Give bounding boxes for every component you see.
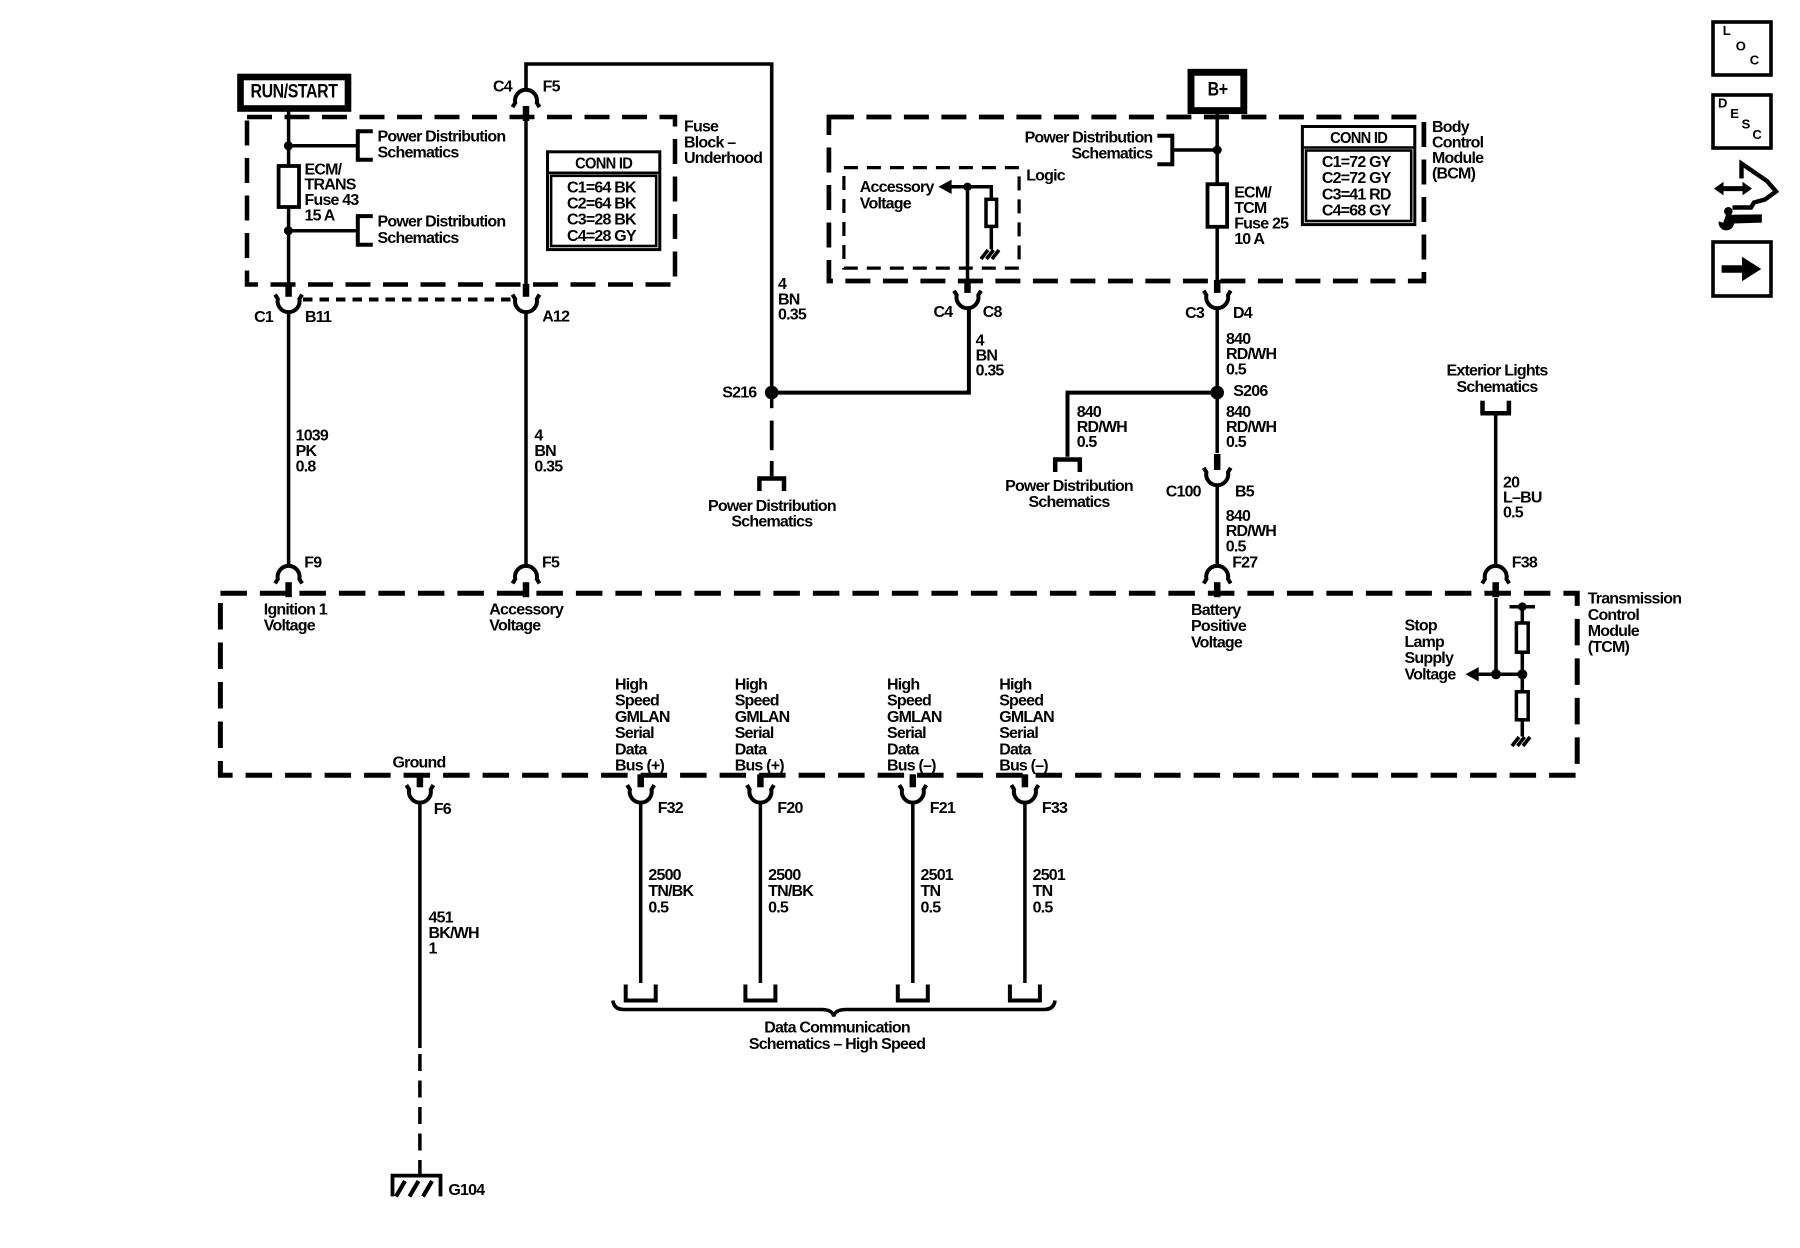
arrow stop lamp supply — [1466, 667, 1479, 681]
svg-text:TN: TN — [921, 883, 941, 900]
svg-text:Block –: Block – — [684, 134, 736, 151]
svg-text:C2=64 BK: C2=64 BK — [567, 196, 637, 213]
connector F5 TCM top — [513, 566, 540, 583]
svg-text:GMLAN: GMLAN — [887, 709, 942, 726]
connector F6 TCM bottom — [406, 785, 433, 802]
svg-text:GMLAN: GMLAN — [615, 709, 670, 726]
connector A12 fuse block bottom — [513, 295, 540, 312]
svg-text:0.35: 0.35 — [976, 362, 1005, 379]
svg-text:Voltage: Voltage — [860, 195, 912, 212]
svg-text:0.5: 0.5 — [1077, 434, 1098, 451]
svg-text:S206: S206 — [1233, 383, 1268, 400]
connector F20 TCM bottom — [747, 785, 774, 802]
wire S216 stub down — [770, 393, 774, 409]
svg-text:Underhood: Underhood — [684, 150, 762, 167]
svg-text:Body: Body — [1432, 119, 1470, 136]
svg-text:Serial: Serial — [887, 725, 926, 742]
svg-text:Stop: Stop — [1405, 618, 1438, 635]
svg-text:0.35: 0.35 — [534, 459, 563, 476]
icon outline arrow — [1733, 164, 1777, 208]
svg-text:F21: F21 — [930, 800, 956, 817]
connector C3/D4 BCM bottom — [1204, 291, 1231, 308]
svg-text:TN: TN — [1033, 883, 1053, 900]
internal T-bar terminal — [1510, 605, 1536, 609]
connector C1/B11 fuse block bottom — [275, 295, 302, 312]
connector F27 TCM top — [1204, 566, 1231, 583]
wire F33 to data bus — [1023, 802, 1027, 984]
svg-text:Data: Data — [999, 741, 1031, 758]
svg-text:B+: B+ — [1208, 79, 1228, 100]
svg-text:F38: F38 — [1512, 555, 1538, 572]
svg-text:C8: C8 — [983, 304, 1003, 321]
CONN ID table fuse block — [548, 152, 660, 250]
svg-text:Speed: Speed — [735, 693, 779, 710]
svg-text:F27: F27 — [1232, 555, 1258, 572]
svg-text:Bus (–): Bus (–) — [999, 758, 1048, 775]
svg-text:TN/BK: TN/BK — [768, 883, 814, 900]
connector C100/B5 inline — [1214, 454, 1221, 470]
svg-text:Schematics: Schematics — [731, 513, 813, 530]
svg-text:GMLAN: GMLAN — [999, 709, 1054, 726]
svg-text:Data Communication: Data Communication — [764, 1020, 910, 1037]
svg-text:Ignition 1: Ignition 1 — [264, 601, 328, 618]
svg-text:C3=41 RD: C3=41 RD — [1322, 186, 1391, 203]
svg-text:Speed: Speed — [615, 693, 659, 710]
svg-text:2500: 2500 — [768, 867, 801, 884]
junction dot T-bar — [1518, 602, 1527, 611]
logic box (dashed) — [844, 168, 1019, 269]
wire C1 to F9 — [287, 311, 291, 567]
svg-text:1: 1 — [429, 940, 438, 957]
svg-text:Serial: Serial — [999, 725, 1038, 742]
wire exterior lights to F38 — [1494, 413, 1498, 567]
svg-text:PK: PK — [296, 443, 318, 460]
transmission control module box (dashed) — [220, 593, 1577, 775]
wire junction to schematic ref 1 — [289, 144, 356, 148]
svg-text:A12: A12 — [542, 309, 570, 326]
svg-text:F20: F20 — [777, 800, 803, 817]
svg-text:Module: Module — [1588, 623, 1640, 640]
svg-text:Data: Data — [615, 741, 647, 758]
svg-text:L: L — [1723, 23, 1731, 38]
svg-text:F32: F32 — [658, 800, 684, 817]
svg-text:C1=72 GY: C1=72 GY — [1322, 154, 1392, 171]
wire fuse 43 to connector C1 — [287, 207, 291, 284]
svg-text:Accessory: Accessory — [860, 179, 935, 196]
node S216 splice — [765, 386, 779, 400]
fuse block - underhood box (dashed) — [247, 117, 675, 285]
chassis ground TCM — [1512, 737, 1519, 746]
fuse F25 ECM/TCM — [1208, 184, 1228, 227]
svg-text:B11: B11 — [305, 309, 332, 326]
svg-text:TN/BK: TN/BK — [648, 883, 694, 900]
svg-text:Schematics: Schematics — [378, 145, 460, 162]
svg-text:High: High — [999, 677, 1031, 694]
svg-text:C4=28 GY: C4=28 GY — [567, 228, 637, 245]
wire A12 to F5 — [524, 311, 528, 567]
wire fuse 25 to C3 — [1215, 227, 1219, 280]
svg-text:Exterior Lights: Exterior Lights — [1447, 362, 1549, 379]
svg-text:High: High — [887, 677, 919, 694]
connector F21 TCM bottom — [899, 785, 926, 802]
svg-text:Battery: Battery — [1191, 602, 1241, 619]
wire F32 to data bus — [639, 802, 643, 984]
body control module box (dashed) — [829, 117, 1424, 281]
svg-text:C1=64 BK: C1=64 BK — [567, 179, 637, 196]
svg-text:S: S — [1742, 117, 1751, 132]
CONN ID table BCM — [1302, 127, 1414, 225]
svg-text:Positive: Positive — [1191, 618, 1247, 635]
svg-text:Schematics: Schematics — [1457, 379, 1539, 396]
wire T-bar to resistor R1 — [1521, 607, 1525, 623]
wire junction to schematic ref 2 — [289, 229, 356, 233]
wire B+ to BCM — [1215, 111, 1219, 185]
connector F32 TCM bottom — [627, 785, 654, 802]
svg-text:C: C — [1752, 127, 1762, 142]
off-page connector exterior lights — [1480, 411, 1511, 416]
svg-text:Voltage: Voltage — [1405, 666, 1457, 683]
wire corner down to resistor — [990, 185, 994, 199]
svg-text:F9: F9 — [304, 555, 322, 572]
svg-text:F33: F33 — [1042, 800, 1068, 817]
wire bracket to B+ line — [1174, 148, 1217, 152]
wire F6 dashed to G104 — [418, 1054, 422, 1174]
wire junction to resistor R2 — [1521, 674, 1525, 692]
wire S206 to C100 — [1215, 393, 1219, 453]
svg-text:Data: Data — [735, 741, 767, 758]
svg-text:Data: Data — [887, 741, 919, 758]
svg-text:Power Distribution: Power Distribution — [378, 128, 506, 145]
junction dot upper — [284, 141, 293, 150]
connector F9 TCM top — [275, 566, 302, 583]
schematic reference bracket 1 — [356, 129, 360, 161]
wire R2 to ground — [1521, 720, 1525, 737]
svg-text:451: 451 — [429, 909, 454, 926]
svg-text:0.35: 0.35 — [778, 307, 807, 324]
svg-text:G104: G104 — [448, 1182, 485, 1199]
wire S206 branch left — [1068, 393, 1218, 457]
svg-text:Lamp: Lamp — [1405, 634, 1445, 651]
svg-text:D: D — [1718, 95, 1727, 110]
svg-text:C3: C3 — [1185, 305, 1205, 322]
junction dot stop lamp node — [1517, 669, 1527, 679]
svg-text:Voltage: Voltage — [489, 618, 541, 635]
connector C4/F5 fuse block top — [513, 90, 540, 107]
svg-text:Accessory: Accessory — [489, 601, 564, 618]
svg-text:C: C — [1750, 53, 1760, 68]
svg-text:Control: Control — [1432, 135, 1484, 152]
junction dot BCM — [1213, 146, 1222, 155]
wire accessory voltage down to C8 — [966, 187, 970, 280]
svg-text:0.5: 0.5 — [648, 899, 669, 916]
off-page data bus termination (F32) — [626, 985, 656, 1001]
junction dot logic — [963, 183, 971, 191]
svg-text:C100: C100 — [1166, 484, 1202, 501]
svg-text:Transmission: Transmission — [1588, 591, 1682, 608]
svg-text:0.5: 0.5 — [921, 899, 942, 916]
svg-text:Bus (–): Bus (–) — [887, 758, 936, 775]
svg-text:Bus (+): Bus (+) — [735, 758, 785, 775]
svg-text:CONN ID: CONN ID — [1330, 130, 1387, 147]
svg-text:1039: 1039 — [296, 428, 329, 445]
svg-text:CONN ID: CONN ID — [575, 155, 632, 172]
svg-text:Voltage: Voltage — [1191, 634, 1243, 651]
svg-text:C4=68 GY: C4=68 GY — [1322, 203, 1392, 220]
svg-text:Ground: Ground — [393, 755, 446, 772]
svg-text:F5: F5 — [542, 555, 560, 572]
svg-text:Serial: Serial — [615, 725, 654, 742]
svg-text:C3=28 BK: C3=28 BK — [567, 212, 637, 229]
svg-text:Power Distribution: Power Distribution — [378, 214, 506, 231]
svg-text:GMLAN: GMLAN — [735, 709, 790, 726]
wire F6 down solid — [418, 802, 422, 1049]
connector F38 TCM top — [1482, 566, 1509, 583]
svg-text:Power Distribution: Power Distribution — [1025, 130, 1153, 147]
ground G104 symbol — [393, 1176, 441, 1197]
svg-text:C4: C4 — [933, 304, 953, 321]
wire R1 to junction — [1521, 652, 1525, 674]
svg-text:F6: F6 — [434, 801, 452, 818]
resistor logic pull-up — [986, 199, 997, 226]
connector C4/C8 BCM bottom — [954, 291, 981, 308]
resistor R2 stop lamp — [1516, 692, 1528, 720]
connector F33 TCM bottom — [1011, 785, 1038, 802]
svg-text:Fuse: Fuse — [684, 119, 719, 136]
brace data communication — [613, 1001, 1055, 1017]
svg-text:High: High — [735, 677, 767, 694]
svg-text:Bus (+): Bus (+) — [615, 758, 665, 775]
svg-text:D4: D4 — [1233, 305, 1253, 322]
schematic reference bracket 2 — [356, 214, 360, 246]
node RUN/START voltage source — [241, 77, 349, 109]
node S206 splice — [1210, 386, 1224, 400]
svg-text:E: E — [1730, 106, 1739, 121]
svg-text:Module: Module — [1432, 150, 1484, 167]
wire F38 inside TCM — [1494, 598, 1498, 674]
svg-text:O: O — [1736, 38, 1746, 53]
schematic reference bracket BCM — [1170, 134, 1174, 166]
dotted connector line C1-A12 — [303, 298, 512, 302]
off-page data bus termination (F21) — [898, 985, 928, 1001]
svg-text:B5: B5 — [1235, 484, 1255, 501]
wire S216 dashed continuation — [770, 421, 774, 451]
svg-text:Power Distribution: Power Distribution — [1005, 478, 1133, 495]
svg-text:0.5: 0.5 — [1226, 538, 1247, 555]
svg-text:RUN/START: RUN/START — [251, 82, 339, 103]
wire S216 to C8 riser — [772, 309, 969, 393]
chassis ground logic — [981, 250, 988, 259]
junction dot wire crossing — [1491, 669, 1501, 679]
svg-text:0.5: 0.5 — [1226, 434, 1247, 451]
svg-text:2500: 2500 — [648, 867, 681, 884]
wire top link from C4/F5 up and right — [526, 64, 772, 386]
svg-text:Power Distribution: Power Distribution — [708, 498, 836, 515]
svg-text:0.5: 0.5 — [1033, 899, 1054, 916]
svg-text:Schematics: Schematics — [1071, 146, 1153, 163]
svg-text:C2=72 GY: C2=72 GY — [1322, 170, 1392, 187]
wire inside fuse block C4 to A12 — [524, 120, 528, 284]
svg-text:(TCM): (TCM) — [1588, 639, 1630, 656]
svg-text:15 A: 15 A — [305, 208, 336, 225]
svg-text:F5: F5 — [543, 79, 561, 96]
svg-text:10 A: 10 A — [1234, 231, 1265, 248]
junction dot lower — [284, 226, 293, 235]
svg-text:Control: Control — [1588, 607, 1640, 624]
wire F20 to data bus — [759, 802, 763, 984]
svg-text:High: High — [615, 677, 647, 694]
wire F21 to data bus — [911, 802, 915, 984]
icon wrench — [1719, 215, 1734, 230]
svg-text:BK/WH: BK/WH — [429, 925, 479, 942]
svg-text:Logic: Logic — [1026, 168, 1066, 185]
svg-text:Serial: Serial — [735, 725, 774, 742]
svg-text:0.5: 0.5 — [1503, 504, 1524, 521]
off-page connector to power distribution — [757, 476, 786, 481]
wire D4 to S206 — [1215, 307, 1219, 393]
svg-text:(BCM): (BCM) — [1432, 166, 1476, 183]
off-page connector branch — [1053, 457, 1082, 462]
wire C100 to F27 — [1215, 485, 1219, 568]
svg-text:4: 4 — [534, 428, 543, 445]
off-page data bus termination (F20) — [745, 985, 775, 1001]
node B+ voltage source — [1191, 72, 1244, 110]
svg-text:C1: C1 — [254, 309, 274, 326]
wire arrow to resistor corner — [950, 185, 991, 189]
icon double arrow — [1714, 182, 1752, 196]
svg-text:2501: 2501 — [1033, 867, 1066, 884]
arrow to accessory voltage — [938, 180, 951, 194]
wire RUN/START to fuse block — [287, 111, 291, 166]
svg-text:0.5: 0.5 — [1226, 361, 1247, 378]
resistor R1 stop lamp — [1516, 623, 1528, 652]
svg-text:Schematics – High Speed: Schematics – High Speed — [749, 1036, 925, 1053]
icon LOC box — [1713, 22, 1771, 75]
svg-text:Schematics: Schematics — [1029, 494, 1111, 511]
svg-text:0.5: 0.5 — [768, 899, 789, 916]
svg-text:Supply: Supply — [1405, 650, 1454, 667]
wire resistor to ground — [990, 226, 994, 249]
icon DESC box — [1713, 95, 1771, 148]
svg-text:0.8: 0.8 — [296, 459, 317, 476]
svg-text:Speed: Speed — [999, 693, 1043, 710]
off-page data bus termination (F33) — [1010, 985, 1040, 1001]
fuse F43 ECM/TRANS — [279, 166, 299, 207]
svg-text:Schematics: Schematics — [378, 230, 460, 247]
svg-text:2501: 2501 — [921, 867, 954, 884]
wire arrow line — [1477, 673, 1522, 677]
svg-text:Speed: Speed — [887, 693, 931, 710]
svg-text:Voltage: Voltage — [264, 618, 316, 635]
svg-text:BN: BN — [534, 443, 556, 460]
icon arrow box — [1713, 242, 1771, 296]
svg-text:C4: C4 — [493, 79, 513, 96]
svg-text:S216: S216 — [722, 384, 757, 401]
